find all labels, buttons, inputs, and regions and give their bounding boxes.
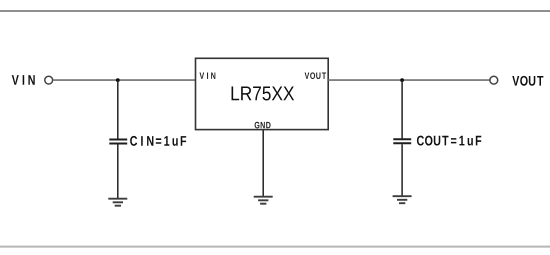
node VIN label [12, 75, 35, 85]
ground (CIN) [108, 199, 127, 206]
terminal VIN (open circle) [45, 76, 53, 84]
value label COUT=1uF [417, 136, 481, 146]
node VOUT label [512, 76, 543, 86]
wire: COUT bottom plate to ground [401, 144, 403, 195]
capacitor CIN bottom plate [109, 143, 127, 145]
capacitor COUT top plate [393, 138, 411, 140]
wire: junction down to CIN top plate [117, 80, 119, 139]
junction node at CIN [116, 78, 120, 82]
wire: IC pin VOUT to VOUT terminal [328, 79, 489, 81]
wire: GND pin down [262, 130, 264, 196]
capacitor COUT bottom plate [393, 142, 411, 144]
capacitor CIN top plate [109, 139, 127, 141]
wire: VIN terminal to IC pin VIN [53, 79, 196, 81]
pin label VOUT (inside box) [305, 72, 327, 79]
pin label VIN (inside box) [200, 73, 216, 79]
junction node at COUT [400, 78, 404, 82]
part value LR75XX [232, 87, 295, 101]
wire: CIN bottom plate to ground [117, 145, 119, 199]
ground (COUT) [393, 196, 412, 203]
top border rule [0, 10, 550, 12]
bottom border rule [0, 246, 550, 248]
ground (GND pin) [254, 197, 273, 204]
regulator U1 LR75XX box [196, 58, 329, 129]
value label CIN=1uF [130, 136, 186, 146]
pin label GND (bottom of box) [255, 122, 271, 129]
terminal VOUT (open circle) [490, 76, 498, 84]
wire: junction down to COUT top plate [401, 80, 403, 138]
